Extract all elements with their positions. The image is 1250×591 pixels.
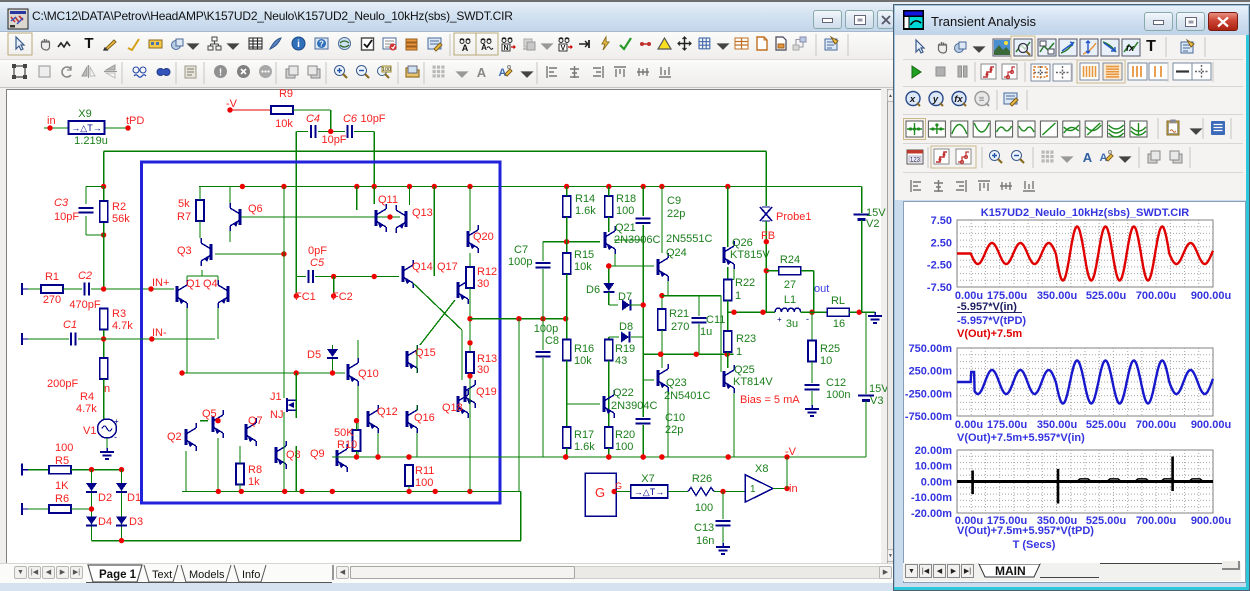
svg-text:30: 30: [477, 364, 489, 376]
svg-text:Q24: Q24: [666, 247, 687, 259]
svg-text:Q1: Q1: [186, 278, 201, 290]
svg-text:-2.50: -2.50: [927, 260, 952, 272]
svg-text:X9: X9: [78, 108, 91, 120]
svg-text:-750.00m: -750.00m: [905, 411, 952, 423]
svg-text:-V: -V: [785, 446, 797, 458]
svg-text:V: V: [561, 45, 566, 52]
svg-text:700.00u: 700.00u: [1136, 419, 1176, 431]
svg-text:Q18: Q18: [442, 402, 463, 414]
svg-text:100: 100: [695, 502, 713, 514]
svg-text:R2: R2: [112, 201, 126, 213]
svg-text:C9: C9: [667, 195, 681, 207]
svg-text:V(Out)+7.5m+5.957*V(in): V(Out)+7.5m+5.957*V(in): [957, 432, 1085, 444]
svg-text:C4: C4: [306, 113, 320, 125]
svg-text:R15: R15: [574, 249, 594, 261]
svg-text:A: A: [462, 43, 469, 53]
svg-text:D7: D7: [618, 291, 632, 303]
svg-text:fx: fx: [954, 94, 963, 105]
svg-text:-20.00m: -20.00m: [911, 508, 952, 520]
svg-text:FC1: FC1: [295, 291, 316, 303]
svg-text:y: y: [932, 94, 939, 105]
svg-text:RL: RL: [831, 295, 845, 307]
svg-text:20.00m: 20.00m: [915, 445, 953, 457]
svg-text:Q13: Q13: [412, 207, 433, 219]
svg-text:T: T: [1146, 38, 1156, 55]
svg-text:-5.957*V(tPD): -5.957*V(tPD): [957, 315, 1026, 327]
svg-text:900.00u: 900.00u: [1191, 419, 1231, 431]
svg-text:Q7: Q7: [248, 415, 263, 427]
svg-text:100p: 100p: [534, 323, 558, 335]
svg-text:50K: 50K: [334, 427, 354, 439]
svg-text:-10.00m: -10.00m: [911, 492, 952, 504]
svg-text:Q12: Q12: [377, 406, 398, 418]
svg-text:!: !: [219, 68, 222, 79]
svg-text:R19: R19: [615, 343, 635, 355]
svg-text:525.00u: 525.00u: [1086, 419, 1126, 431]
svg-text:-5.957*V(in): -5.957*V(in): [957, 301, 1017, 313]
svg-text:Page 1: Page 1: [99, 569, 137, 581]
svg-text:out: out: [814, 283, 829, 295]
svg-text:Q2: Q2: [167, 431, 182, 443]
svg-text:Q20: Q20: [473, 231, 494, 243]
svg-text:D1: D1: [127, 492, 141, 504]
svg-text:R11: R11: [415, 465, 434, 477]
svg-text:250.00m: 250.00m: [909, 366, 953, 378]
svg-text:1k: 1k: [248, 476, 260, 488]
svg-text:700.00u: 700.00u: [1136, 515, 1176, 527]
svg-text:10k: 10k: [574, 261, 592, 273]
svg-text:C3: C3: [54, 197, 69, 209]
svg-text:G: G: [595, 485, 605, 500]
svg-text:C8: C8: [545, 335, 559, 347]
svg-text:10pF: 10pF: [360, 113, 385, 125]
svg-text:→△T→: →△T→: [634, 487, 664, 497]
svg-text:2N5401C: 2N5401C: [664, 390, 711, 402]
svg-text:R1: R1: [45, 271, 59, 283]
svg-text:D2: D2: [98, 492, 112, 504]
svg-text:Q6: Q6: [248, 203, 263, 215]
svg-text:30: 30: [477, 278, 489, 290]
svg-text:Q15: Q15: [415, 347, 436, 359]
svg-text:Q22: Q22: [613, 387, 634, 399]
svg-text:10pF: 10pF: [54, 211, 79, 223]
svg-text:FC2: FC2: [332, 291, 353, 303]
svg-text:D8: D8: [619, 321, 633, 333]
svg-text:V3: V3: [870, 395, 883, 407]
svg-text:10: 10: [820, 355, 832, 367]
svg-text:1: 1: [750, 484, 756, 495]
svg-text:Info: Info: [242, 569, 260, 581]
svg-text:C13: C13: [694, 522, 714, 534]
svg-text:900.00u: 900.00u: [1191, 515, 1231, 527]
svg-text:A: A: [481, 43, 487, 52]
svg-text:1u: 1u: [700, 326, 712, 338]
svg-text:A: A: [477, 65, 487, 80]
svg-text:IN+: IN+: [152, 277, 169, 289]
svg-text:G: G: [615, 481, 622, 491]
svg-text:R22: R22: [735, 277, 755, 289]
svg-text:→△T→: →△T→: [71, 123, 101, 133]
svg-text:Text: Text: [152, 569, 172, 581]
svg-text:10k: 10k: [275, 118, 293, 130]
svg-text:R4: R4: [80, 391, 94, 403]
svg-text:IN-: IN-: [152, 327, 167, 339]
svg-text:X7: X7: [641, 473, 654, 485]
svg-text:R24: R24: [780, 254, 800, 266]
svg-text:22p: 22p: [667, 208, 685, 220]
svg-text:Q25: Q25: [734, 364, 755, 376]
svg-text:R26: R26: [692, 473, 712, 485]
svg-text:T (Secs): T (Secs): [1013, 539, 1056, 551]
svg-text:Models: Models: [189, 569, 225, 581]
svg-text:NJ: NJ: [270, 409, 283, 421]
svg-text:100: 100: [55, 442, 73, 454]
svg-text:R18: R18: [616, 193, 636, 205]
svg-text:16n: 16n: [696, 535, 714, 547]
svg-text:R21: R21: [669, 308, 689, 320]
svg-text:100n: 100n: [826, 389, 850, 401]
svg-text:Q4: Q4: [203, 278, 218, 290]
svg-text:0.00m: 0.00m: [921, 477, 952, 489]
svg-text:1.6k: 1.6k: [574, 441, 595, 453]
svg-text:Q26: Q26: [732, 237, 753, 249]
svg-text:0pF: 0pF: [308, 245, 327, 257]
svg-text:KT815V: KT815V: [730, 249, 770, 261]
svg-text:Q14: Q14: [412, 261, 433, 273]
svg-text:10.00m: 10.00m: [915, 461, 953, 473]
svg-text:100p: 100p: [508, 256, 532, 268]
svg-text:FB: FB: [761, 230, 775, 242]
svg-text:L1: L1: [784, 294, 796, 306]
svg-text:-V: -V: [226, 98, 238, 110]
svg-text:Q3: Q3: [177, 245, 192, 257]
svg-text:R14: R14: [575, 193, 595, 205]
svg-text:A: A: [1083, 150, 1093, 165]
svg-text:123: 123: [910, 158, 921, 164]
svg-text:1K: 1K: [55, 480, 69, 492]
svg-text:R25: R25: [820, 343, 840, 355]
svg-text:V1: V1: [83, 425, 96, 437]
svg-text:R7: R7: [177, 211, 191, 223]
svg-text:4.7k: 4.7k: [112, 320, 133, 332]
svg-text:N: N: [503, 45, 508, 52]
svg-text:Q10: Q10: [358, 368, 379, 380]
svg-text:10k: 10k: [574, 355, 592, 367]
svg-text:V2: V2: [866, 218, 879, 230]
svg-text:Q23: Q23: [666, 377, 687, 389]
svg-text:16: 16: [833, 318, 845, 330]
svg-text:V(Out)+7.5m+5.957*V(tPD): V(Out)+7.5m+5.957*V(tPD): [957, 525, 1094, 537]
svg-text:T: T: [84, 35, 93, 52]
svg-text:900.00u: 900.00u: [1191, 290, 1231, 302]
svg-text:1.6k: 1.6k: [575, 205, 596, 217]
svg-text:Q11: Q11: [378, 194, 398, 206]
svg-text:C6: C6: [343, 113, 358, 125]
svg-text:n: n: [104, 383, 110, 395]
svg-text:K157UD2_Neulo_10kHz(sbs)_SWDT.: K157UD2_Neulo_10kHz(sbs)_SWDT.CIR: [981, 207, 1190, 219]
svg-text:R17: R17: [574, 429, 594, 441]
svg-text:350.00u: 350.00u: [1037, 419, 1077, 431]
svg-text:C7: C7: [514, 244, 528, 256]
svg-text:R16: R16: [574, 343, 594, 355]
svg-text:x: x: [909, 94, 916, 105]
svg-text:C12: C12: [826, 377, 846, 389]
svg-text:4.7k: 4.7k: [76, 403, 97, 415]
svg-text:KT814V: KT814V: [733, 376, 773, 388]
svg-text:Q17: Q17: [437, 261, 458, 273]
svg-text:?: ?: [319, 40, 324, 49]
svg-text:tPD: tPD: [126, 115, 144, 127]
svg-text:≡: ≡: [979, 94, 985, 105]
svg-text:-: -: [806, 314, 809, 324]
svg-text:+: +: [114, 417, 119, 426]
svg-text:R12: R12: [477, 266, 497, 278]
svg-text:V(Out)+7.5m: V(Out)+7.5m: [957, 328, 1022, 340]
svg-text:700.00u: 700.00u: [1136, 290, 1176, 302]
svg-text:10pF: 10pF: [321, 134, 346, 146]
svg-text:100: 100: [415, 477, 433, 489]
svg-text:200pF: 200pF: [47, 378, 78, 390]
svg-text:56k: 56k: [112, 213, 130, 225]
svg-text:D6: D6: [586, 284, 600, 296]
svg-text:100: 100: [616, 205, 634, 217]
svg-text:-: -: [114, 432, 117, 442]
svg-text:R3: R3: [112, 308, 126, 320]
svg-text:C1: C1: [63, 319, 77, 331]
svg-text:1: 1: [736, 346, 742, 358]
svg-text:R20: R20: [615, 429, 635, 441]
svg-text:C2: C2: [78, 270, 92, 282]
svg-text:2N3904C: 2N3904C: [611, 400, 658, 412]
svg-text:Bias = 5 mA: Bias = 5 mA: [740, 394, 800, 406]
svg-text:Q16: Q16: [414, 412, 435, 424]
svg-text:D4: D4: [98, 516, 112, 528]
svg-text:R23: R23: [736, 333, 756, 345]
svg-text:175.00u: 175.00u: [987, 419, 1027, 431]
svg-text:43: 43: [615, 355, 627, 367]
svg-text:-250.00m: -250.00m: [905, 388, 952, 400]
svg-text:1: 1: [735, 290, 741, 302]
svg-text:470pF: 470pF: [69, 299, 100, 311]
svg-text:Q21: Q21: [615, 222, 636, 234]
svg-text:270: 270: [671, 321, 689, 333]
svg-text:-7.50: -7.50: [927, 282, 952, 294]
svg-text:350.00u: 350.00u: [1037, 290, 1077, 302]
svg-text:MAIN: MAIN: [995, 564, 1026, 578]
svg-text:2N5551C: 2N5551C: [666, 233, 713, 245]
svg-text:R9: R9: [279, 89, 293, 100]
svg-text:0.00u: 0.00u: [955, 419, 983, 431]
svg-text:R10: R10: [337, 439, 357, 451]
svg-text:fx: fx: [1126, 43, 1135, 53]
svg-text:525.00u: 525.00u: [1086, 290, 1126, 302]
svg-text:Probe1: Probe1: [776, 211, 811, 223]
svg-text:5k: 5k: [178, 198, 190, 210]
svg-text:100: 100: [382, 67, 391, 73]
svg-text:Q8: Q8: [286, 449, 301, 461]
svg-text:Q5: Q5: [202, 408, 217, 420]
svg-text:2.50: 2.50: [931, 237, 952, 249]
svg-text:27: 27: [784, 279, 796, 291]
svg-text:C5: C5: [310, 257, 325, 269]
svg-text:D3: D3: [129, 516, 143, 528]
svg-text:in: in: [47, 115, 56, 127]
svg-text:270: 270: [43, 294, 61, 306]
svg-text:750.00m: 750.00m: [909, 343, 953, 355]
svg-text:R6: R6: [55, 493, 69, 505]
svg-text:C11: C11: [706, 314, 725, 326]
svg-text:1.219u: 1.219u: [74, 135, 108, 147]
svg-text:D5: D5: [307, 349, 321, 361]
svg-text:3u: 3u: [786, 318, 798, 330]
svg-text:Q9: Q9: [310, 448, 325, 460]
svg-text:X8: X8: [755, 463, 768, 475]
svg-text:+: +: [777, 315, 782, 324]
svg-text:100: 100: [615, 441, 633, 453]
svg-text:Q19: Q19: [476, 386, 497, 398]
svg-text:15V: 15V: [869, 383, 888, 395]
svg-text:i: i: [297, 39, 300, 50]
svg-text:7.50: 7.50: [931, 215, 952, 227]
svg-text:R8: R8: [248, 464, 262, 476]
svg-text:in: in: [789, 483, 798, 495]
svg-text:J1: J1: [270, 391, 282, 403]
